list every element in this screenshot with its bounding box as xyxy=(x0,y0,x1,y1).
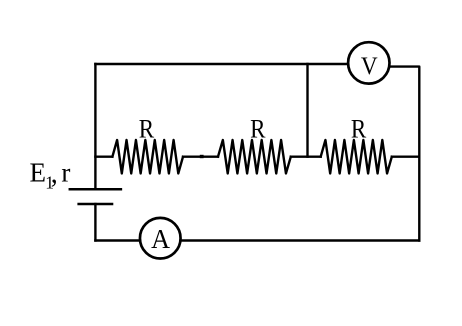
svg-text:R: R xyxy=(351,115,367,144)
svg-text:E: E xyxy=(30,158,47,188)
svg-text:R: R xyxy=(139,115,155,144)
svg-text:,: , xyxy=(51,158,58,189)
svg-text:A: A xyxy=(151,224,170,255)
svg-text:V: V xyxy=(361,52,378,80)
svg-text:R: R xyxy=(250,115,266,144)
svg-text:r: r xyxy=(61,158,70,188)
